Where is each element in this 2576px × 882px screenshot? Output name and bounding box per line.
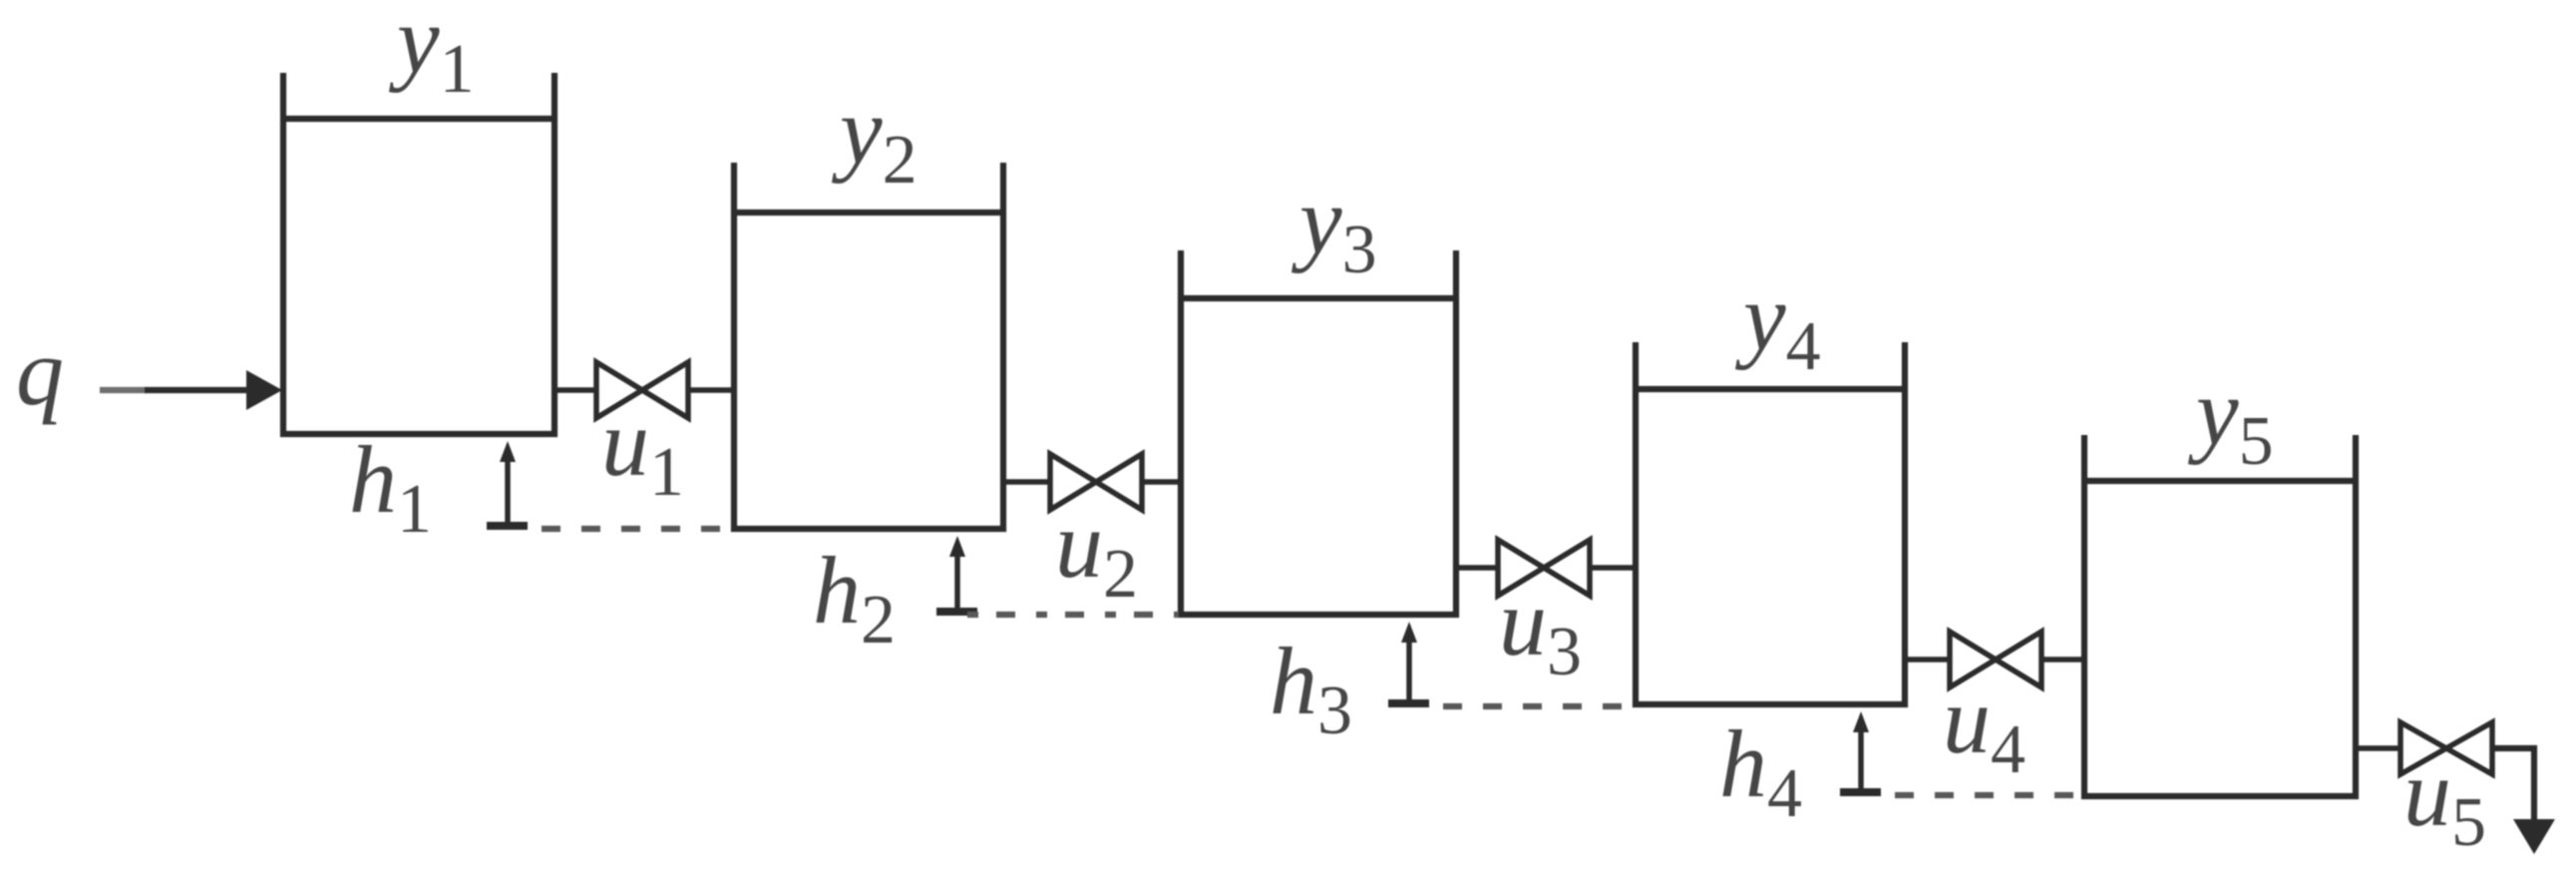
tank 1 body xyxy=(283,73,554,434)
h1 dimension arrow xyxy=(500,441,516,529)
inflow arrow q xyxy=(100,370,282,410)
svg-text:u2: u2 xyxy=(1055,491,1138,613)
valve u5 xyxy=(2400,722,2492,774)
outflow elbow wire xyxy=(2490,748,2534,820)
wire tank 2 to valve u2 xyxy=(1001,479,1052,485)
wire valve u4 to tank 5 xyxy=(2039,657,2086,662)
svg-text:h4: h4 xyxy=(1719,710,1802,832)
datum dashed line 4 xyxy=(1895,792,2080,798)
wire tank 1 to valve u1 xyxy=(552,387,598,393)
svg-text:u4: u4 xyxy=(1943,666,2025,788)
tank 2 liquid surface line xyxy=(734,210,1003,216)
h4 dimension arrow xyxy=(1853,711,1869,795)
valve u4 xyxy=(1950,632,2041,687)
tank 3 liquid surface line xyxy=(1181,295,1456,301)
svg-text:h2: h2 xyxy=(813,537,896,659)
svg-text:h3: h3 xyxy=(1270,628,1352,749)
h2 datum base tick xyxy=(936,608,977,616)
valve u1 xyxy=(596,362,688,418)
tank 5 body xyxy=(2084,435,2356,796)
tank 5 liquid surface line xyxy=(2084,478,2356,484)
wire tank 3 to valve u3 xyxy=(1454,565,1500,571)
valve u3 xyxy=(1498,540,1590,596)
h3 dimension arrow xyxy=(1401,622,1417,706)
svg-text:h1: h1 xyxy=(349,426,432,548)
svg-text:q: q xyxy=(16,318,64,425)
wire valve u2 to tank 3 xyxy=(1140,479,1183,485)
datum dashed line 3 xyxy=(1443,703,1632,709)
datum dashed line 2 xyxy=(967,612,1179,618)
svg-text:y2: y2 xyxy=(831,77,918,199)
wire tank 5 to valve u5 xyxy=(2354,745,2402,751)
svg-text:y1: y1 xyxy=(388,0,475,108)
tank 4 liquid surface line xyxy=(1636,386,1905,392)
tank 1 liquid surface line xyxy=(283,116,554,122)
tank 3 body xyxy=(1181,250,1456,615)
h1 datum base tick xyxy=(487,522,528,530)
wire valve u1 to tank 2 xyxy=(686,387,736,393)
svg-text:y3: y3 xyxy=(1290,167,1377,288)
h2 dimension arrow xyxy=(949,536,965,615)
tank 4 body xyxy=(1636,342,1905,704)
h4 datum base tick xyxy=(1840,788,1881,796)
datum dashed line 1 xyxy=(542,526,732,532)
svg-text:u3: u3 xyxy=(1499,569,1582,690)
svg-text:y5: y5 xyxy=(2187,358,2274,480)
outflow arrow xyxy=(2513,819,2555,854)
wire tank 4 to valve u4 xyxy=(1903,657,1952,662)
tank 2 body xyxy=(734,163,1003,529)
wire valve u3 to tank 4 xyxy=(1588,565,1638,571)
svg-text:y4: y4 xyxy=(1734,263,1821,385)
h3 datum base tick xyxy=(1388,699,1429,707)
valve u2 xyxy=(1050,454,1142,510)
